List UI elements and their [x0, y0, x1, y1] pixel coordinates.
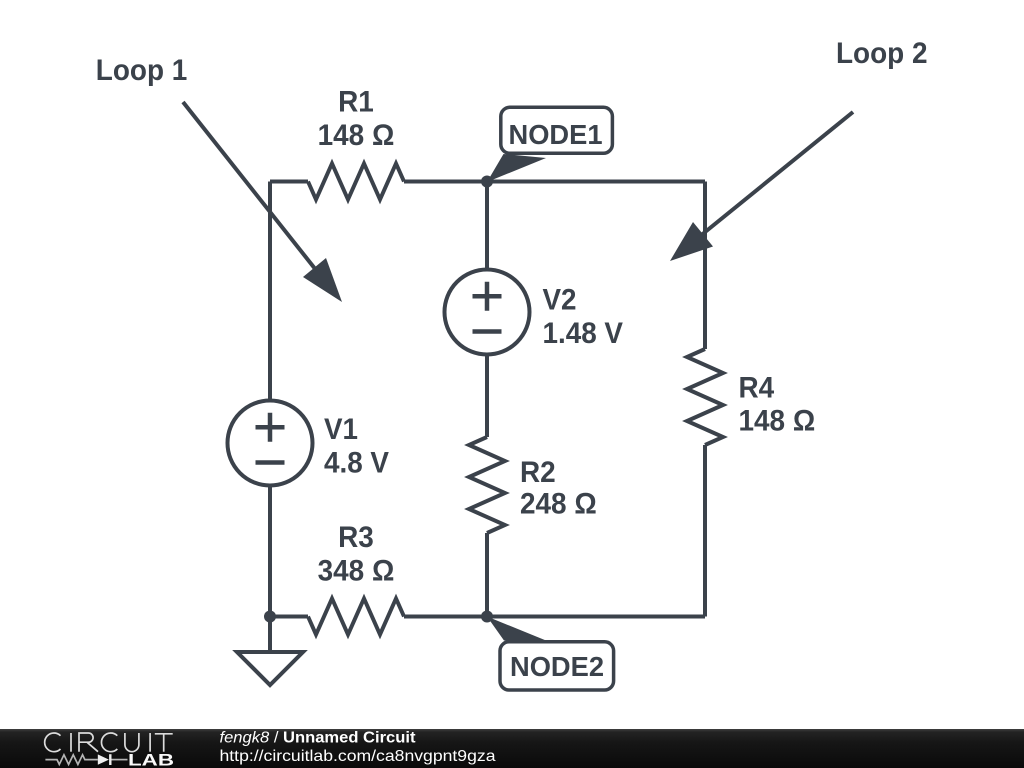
wire — [270, 180, 308, 184]
svg-text:R3: R3 — [338, 521, 374, 554]
CircuitLab logo resistor-diode glyph — [45, 754, 127, 765]
node NODE1 junction dot — [481, 176, 493, 188]
svg-text:148 Ω: 148 Ω — [318, 119, 395, 152]
resistor R1 — [308, 164, 404, 200]
svg-text:NODE1: NODE1 — [509, 119, 603, 150]
CircuitLab logo CIRCUIT wordmark — [45, 733, 173, 752]
wire — [485, 182, 489, 271]
svg-text:1.48 V: 1.48 V — [543, 317, 624, 350]
svg-text:Loop 2: Loop 2 — [836, 37, 928, 70]
voltage source V1 — [228, 401, 313, 486]
svg-text:V2: V2 — [543, 284, 577, 317]
svg-text:148 Ω: 148 Ω — [739, 405, 816, 438]
wire — [703, 182, 707, 350]
node junction dot left — [264, 611, 276, 623]
wire — [485, 533, 489, 617]
svg-text:4.8 V: 4.8 V — [324, 447, 389, 480]
svg-text:Loop 1: Loop 1 — [96, 54, 188, 87]
wire — [268, 182, 272, 402]
wire — [270, 615, 308, 619]
svg-text:V1: V1 — [324, 413, 358, 446]
svg-text:fengk8 / Unnamed Circuit: fengk8 / Unnamed Circuit — [220, 729, 417, 746]
resistor R4 — [687, 349, 723, 445]
svg-text:R1: R1 — [338, 86, 374, 119]
wire — [703, 445, 707, 617]
annotation arrow Loop 2 — [670, 112, 853, 261]
voltage source V2 — [445, 270, 530, 355]
svg-text:NODE2: NODE2 — [510, 651, 604, 682]
resistor R3 — [308, 599, 404, 635]
wire — [404, 180, 705, 184]
flag NODE1 — [487, 107, 612, 182]
annotation arrow Loop 1 — [183, 102, 342, 302]
svg-text:R2: R2 — [520, 456, 556, 489]
svg-text:LAB: LAB — [128, 750, 174, 768]
wire — [404, 615, 705, 619]
ground — [237, 617, 303, 686]
wire — [485, 354, 489, 437]
svg-text:248 Ω: 248 Ω — [520, 488, 597, 521]
wire — [268, 485, 272, 617]
resistor R2 — [469, 437, 505, 533]
svg-text:http://circuitlab.com/ca8nvgpn: http://circuitlab.com/ca8nvgpnt9gza — [220, 748, 496, 765]
node NODE2 junction dot — [481, 611, 493, 623]
flag NODE2 — [487, 617, 614, 691]
svg-text:R4: R4 — [739, 372, 775, 405]
svg-text:348 Ω: 348 Ω — [318, 555, 395, 588]
footer bar — [0, 729, 1024, 768]
